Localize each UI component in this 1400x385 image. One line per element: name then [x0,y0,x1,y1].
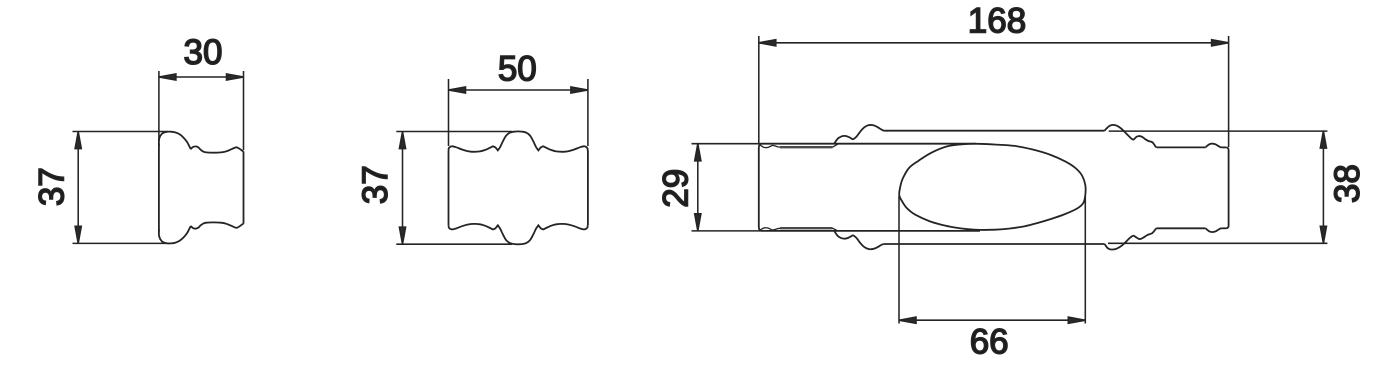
part 3 bottom collar diagonal [833,228,839,231]
dimension 37 (part 1 height) [73,132,169,244]
part 3 right cap top bump [1206,144,1222,148]
dimension 37 (part 2 height) [396,132,512,245]
dim 168 extension line right [1228,36,1230,147]
part 3 right ring cluster top [1105,125,1157,148]
part 3 bottom collar squiggle [760,228,780,231]
svg-text:168: 168 [968,2,1026,41]
svg-text:50: 50 [498,50,537,89]
part 1 left edge [158,144,160,232]
part 3 top collar diagonal [833,144,839,147]
part 3 left ring cluster bottom [835,231,884,249]
dim 66 arrow left [899,317,916,323]
dim 37a extension line bottom [73,242,169,244]
dim 37b arrow up [399,132,405,149]
part 2 left edge [448,151,450,226]
part 3 left edge [759,144,762,231]
part 3 right ring cluster bottom [1105,228,1157,249]
part 3 right cap bottom line [1157,227,1206,229]
part 2 top wavy profile with centre dome [449,131,588,151]
dim 30 extension line right [243,71,245,150]
dim 66 line [899,319,1085,321]
dim 30 arrow right [227,74,244,80]
dim 37b line [402,132,404,245]
svg-text:30: 30 [184,33,223,72]
dim 37a line [77,132,79,244]
part 3 top collar squiggle [760,145,780,148]
dim 30 extension line left [158,71,160,141]
dimension 38 (part 3 right height) [1108,131,1327,243]
dimension 66 (grip oval width) [899,196,1085,324]
part 3 left ring cluster top [835,125,884,143]
dim 50 extension line left [448,79,450,146]
part 3: long handle profile, 168 long [759,125,1229,250]
dim 38 extension line top [1109,130,1328,132]
dimension 50 (part 2 width) [449,79,588,146]
dim 37b extension line top [396,131,512,133]
dim 38 arrow down [1320,226,1326,243]
part 2 bottom wavy profile with centre dome [449,224,588,244]
dim 37a extension line top [73,131,169,133]
part 1 right edge [243,151,245,224]
dimension 168 (part 3 length) [759,36,1229,147]
dim 66 extension line left [898,196,900,324]
dim 38 extension line bottom [1108,242,1327,244]
dim 66 extension line right [1084,196,1086,324]
part 3 barrel top line at 38-level [884,130,1105,132]
dim 168 arrow right [1212,40,1229,46]
dim 168 arrow left [759,40,776,46]
part 3 right cap top line [1157,146,1206,148]
dim 37b extension line bottom [396,243,512,245]
part 3 top line at 29-level [762,143,977,145]
dimension 30 (part 1 width) [159,71,244,150]
dim 29 line [697,144,699,231]
svg-text:37: 37 [356,165,395,204]
part 3 grip oval [899,144,1085,230]
part 2 right edge [587,151,589,226]
dim 37a arrow up [75,132,81,149]
dim 29 arrow down [695,214,701,231]
dim 66 arrow right [1068,317,1085,323]
svg-text:38: 38 [1328,164,1367,203]
part 2: symmetric knob profile, width 50 x height 37 [449,131,588,244]
svg-text:37: 37 [33,167,72,206]
part 3 right edge [1226,147,1228,228]
dim 168 extension line left [758,36,760,143]
part 3 bottom collar band (thick) [780,227,833,229]
dimension 29 (part 3 left height) [692,144,762,231]
dim 50 line [449,89,588,91]
dim 37b arrow down [399,227,405,244]
dim 30 arrow left [159,74,176,80]
part 1 top wavy profile [191,146,244,152]
part 1 bottom wavy profile [191,222,244,228]
part 1 cap bottom arc [159,226,191,244]
part 3 top collar band (thick) [780,146,833,148]
dim 38 arrow up [1320,131,1326,148]
part 3 right cap bottom line 2 [1222,227,1227,229]
dim 29 extension line top [692,143,762,145]
dim 168 line [759,42,1229,44]
dim 50 arrow left [449,87,466,93]
part 3 barrel bottom line at 38-level [884,243,1105,245]
dim 30 line [159,76,244,78]
dim 37a arrow down [75,226,81,243]
part 1 cap top arc [159,132,191,150]
part 3 right cap top line 2 [1222,146,1227,148]
dim 29 arrow up [695,144,701,161]
dim 50 extension line right [587,79,589,146]
dim 29 extension line bottom [692,230,762,232]
part 1: small knob profile, width 30 x height 37 [159,132,244,244]
part 3 bottom line at 29-level [762,230,981,232]
svg-text:66: 66 [970,323,1009,362]
part 3 right cap bottom bump [1206,228,1222,232]
dim 50 arrow right [571,87,588,93]
dim 38 line [1322,131,1324,243]
svg-text:29: 29 [656,169,695,208]
